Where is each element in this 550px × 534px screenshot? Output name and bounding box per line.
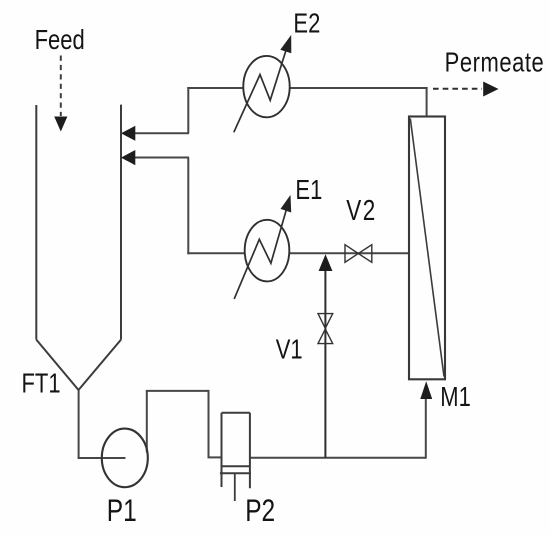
tank FT1 (36, 105, 121, 390)
valve V1 (318, 314, 333, 344)
arrowhead: feed into tank top (54, 117, 67, 132)
label Permeate (445, 47, 545, 78)
arrowhead: permeate (483, 82, 498, 97)
wire: drop to P2 inlet (208, 390, 210, 458)
label Feed (35, 24, 85, 55)
arrowhead: E1 return into tank (121, 150, 135, 165)
wire: V1 branch vertical (324, 271, 326, 458)
label M1 (440, 381, 471, 412)
wire: E1 east horizontal to M1 (289, 252, 409, 254)
label V2 (346, 195, 377, 226)
svg-text:V1: V1 (276, 334, 303, 365)
label P1 (107, 493, 137, 528)
wire: riser from E1 line up to tank arrow (187, 158, 189, 255)
wire: riser to M1 bottom (425, 399, 427, 459)
label FT1 (22, 368, 61, 399)
wire: tank outlet vertical (78, 390, 80, 459)
svg-text:E1: E1 (295, 174, 322, 205)
wire: horizontal into tank (E1 return) (135, 157, 190, 159)
label V1 (276, 334, 303, 365)
label P2 (245, 493, 275, 528)
wire: tank outlet horizontal into P1 (78, 457, 126, 459)
wire: E2 west horizontal to riser (187, 87, 244, 89)
svg-text:M1: M1 (440, 381, 471, 412)
svg-text:P2: P2 (245, 493, 275, 528)
wire: riser from E2 line down to tank arrow (187, 87, 189, 133)
arrowhead: into M1 bottom (420, 381, 432, 399)
wire: drop from permeate corner to M1 top (426, 87, 428, 117)
wire: P2 outlet long horizontal (250, 457, 426, 459)
wire: P1 outlet riser (146, 391, 148, 453)
valve V2 (345, 245, 372, 263)
wire: horizontal over P2 (146, 390, 209, 392)
svg-text:FT1: FT1 (22, 368, 61, 399)
label E1 (295, 174, 322, 205)
E1 arrowhead (281, 195, 292, 213)
wire: E2 east horizontal to permeate corner (290, 87, 428, 89)
E2 arrowhead (280, 35, 291, 53)
arrowhead: E2 return into tank (121, 126, 135, 141)
membrane diagonal (410, 119, 444, 377)
svg-text:E2: E2 (293, 8, 320, 39)
wire: permeate dashed line (433, 88, 482, 90)
svg-text:P1: P1 (107, 493, 137, 528)
wire: feed dashed arrow line (60, 56, 62, 117)
wire: into P2 (208, 456, 222, 458)
pump P2 (220, 413, 251, 501)
pump P1 (102, 429, 148, 488)
label E2 (293, 8, 320, 39)
arrowhead: V1 branch into E1 line (319, 254, 333, 271)
svg-text:Permeate: Permeate (445, 47, 545, 78)
wire: E1 west horizontal to riser (187, 252, 245, 254)
svg-text:Feed: Feed (35, 24, 85, 55)
heat exchanger E2 (234, 40, 290, 133)
svg-text:V2: V2 (346, 195, 377, 226)
membrane module M1 (409, 117, 445, 380)
heat exchanger E1 (234, 201, 289, 299)
wire: horizontal into tank (E2 return) (135, 132, 190, 134)
